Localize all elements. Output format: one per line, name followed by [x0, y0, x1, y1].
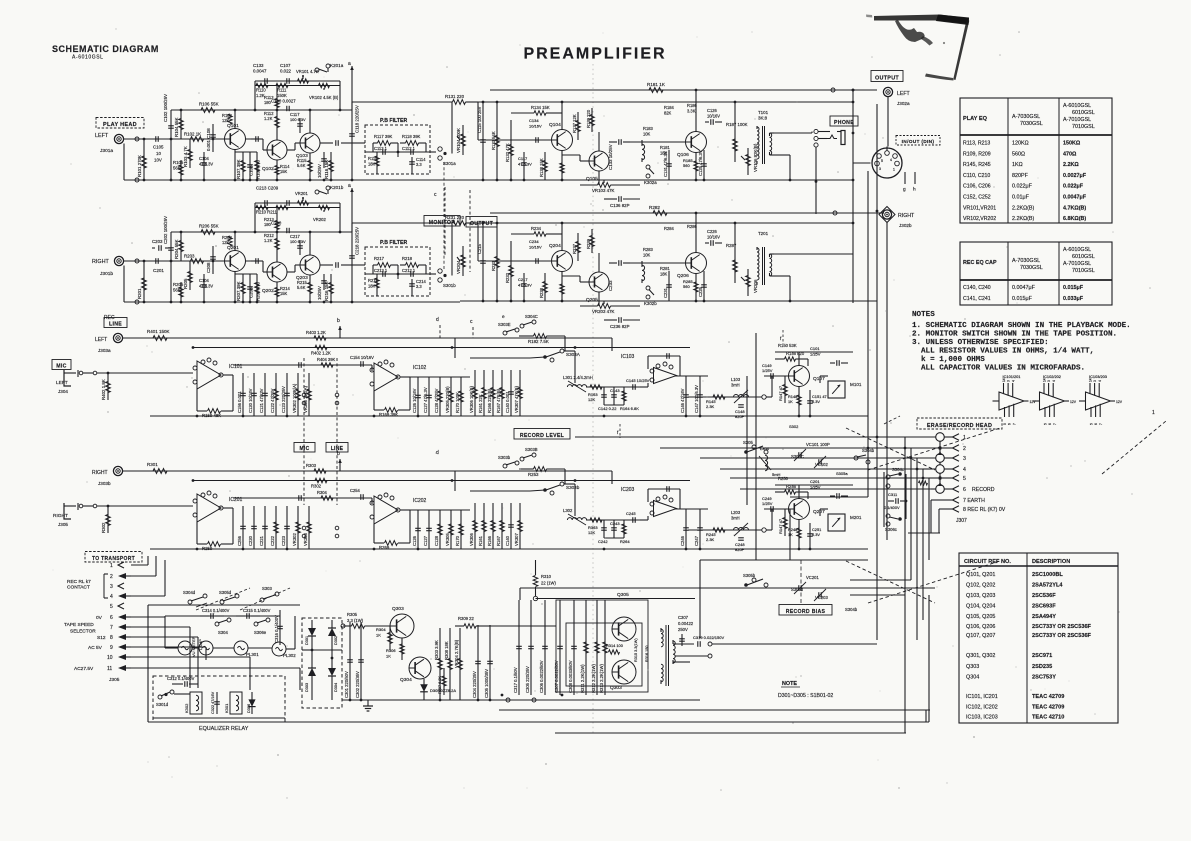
capacitor C218 — [349, 256, 355, 258]
contact rec out — [762, 509, 772, 532]
svg-text:D303: D303 — [305, 683, 309, 692]
svg-text:4: 4 — [890, 158, 892, 162]
diode D306 — [248, 692, 255, 714]
svg-text:R308 18K: R308 18K — [444, 641, 449, 660]
wire ic3 in2 — [647, 516, 649, 520]
svg-text:Q205: Q205 — [586, 297, 598, 303]
resistor R308 — [444, 628, 453, 700]
inductor L103 — [734, 390, 749, 403]
label Q203 — [296, 275, 308, 281]
wire encl left — [147, 605, 149, 722]
capacitor C143 — [610, 387, 620, 405]
resistor R314 — [606, 643, 624, 654]
wire q2 base drop — [262, 139, 264, 150]
wire dashed line link — [336, 358, 338, 505]
wire q2 base — [246, 138, 264, 140]
capacitor C212 — [402, 268, 416, 277]
svg-text:MONITOR: MONITOR — [429, 220, 456, 226]
svg-text:A-7030GSL: A-7030GSL — [1012, 114, 1040, 120]
label SELECTOR — [70, 629, 96, 635]
svg-text:PLAY HEAD: PLAY HEAD — [103, 122, 137, 128]
table ref row IC101, IC201 — [966, 694, 1064, 700]
svg-text:Q105: Q105 — [586, 176, 598, 182]
svg-text:VR206: VR206 — [753, 279, 758, 293]
component R170 col2 — [455, 510, 464, 549]
svg-text:6: 6 — [963, 487, 966, 493]
svg-text:L302: L302 — [563, 508, 573, 513]
svg-text:VR307: VR307 — [514, 533, 519, 546]
potentiometer VR203 — [580, 301, 640, 308]
svg-text:R311 2.2K(1W): R311 2.2K(1W) — [580, 664, 585, 693]
svg-text:56K: 56K — [173, 287, 181, 292]
svg-text:DESCRIPTION: DESCRIPTION — [1032, 559, 1070, 565]
svg-text:3: 3 — [1047, 380, 1051, 382]
label MIC — [52, 360, 71, 370]
capacitor C133 — [265, 78, 267, 84]
trimmer VC101 — [794, 442, 830, 461]
wire lamp bus left — [164, 616, 166, 648]
label S302a — [789, 424, 799, 429]
switch S306c head — [885, 514, 902, 532]
wire jack ground drop — [123, 266, 125, 303]
label EQUALIZER RELAY — [199, 726, 249, 732]
potentiometer VR101 — [298, 75, 309, 83]
label Q301 — [617, 592, 629, 598]
wire fb left drop — [254, 81, 256, 110]
wire filter out — [430, 151, 436, 153]
wire head stub h1 — [850, 579, 911, 581]
resistor R305 — [341, 624, 390, 629]
svg-text:0.022μF: 0.022μF — [1012, 184, 1033, 190]
node b2 arrow — [338, 459, 342, 471]
svg-text:C145 10/25V: C145 10/25V — [626, 378, 650, 383]
table PLAY EQ row VR101,VR201 — [963, 205, 1086, 211]
svg-text:RIGHT: RIGHT — [92, 470, 108, 476]
wire pin2 up — [155, 556, 157, 576]
svg-text:SCHEMATIC DIAGRAM: SCHEMATIC DIAGRAM — [52, 44, 159, 54]
svg-text:R303: R303 — [306, 463, 317, 468]
svg-text:C134: C134 — [529, 118, 539, 123]
svg-text:5mH: 5mH — [772, 472, 781, 477]
capacitor C305 pw — [525, 600, 534, 695]
svg-text:R404 39K: R404 39K — [317, 357, 335, 362]
label R101 150K — [147, 329, 170, 334]
resistor R146s — [775, 357, 808, 366]
svg-text:S305: S305 — [743, 440, 753, 445]
svg-text:K302a: K302a — [644, 180, 657, 185]
capacitor C151 — [807, 390, 827, 416]
component C140 c2 — [505, 503, 514, 549]
svg-text:2SC536F: 2SC536F — [1032, 593, 1056, 599]
capacitor C308 pw — [568, 600, 577, 695]
wire pb2 to out rail — [352, 222, 432, 224]
ground rail contact — [135, 300, 353, 304]
svg-text:0.0047: 0.0047 — [253, 68, 267, 73]
label Q206 — [677, 273, 689, 279]
label R181 1K — [647, 82, 666, 87]
note line — [912, 322, 1131, 330]
label R117 39K — [374, 134, 393, 139]
svg-text:0V: 0V — [96, 615, 103, 621]
svg-text:0.015μF: 0.015μF — [1012, 296, 1033, 302]
resistor R304 — [388, 626, 393, 650]
label MONITOR — [424, 216, 460, 227]
transport pin 6 — [96, 614, 131, 621]
svg-text:R182 7.5K: R182 7.5K — [528, 339, 549, 344]
label R304 1K — [376, 627, 386, 637]
lamp meter 1 — [178, 641, 192, 655]
label R150 — [778, 343, 797, 348]
component VR307 c1 — [514, 370, 523, 416]
transport bracket — [104, 574, 108, 598]
svg-text:4: 4 — [110, 594, 113, 600]
resistor R217 — [373, 263, 398, 268]
svg-text:VR307 47K(B): VR307 47K(B) — [514, 385, 519, 413]
capacitor C307 osc — [678, 615, 694, 646]
svg-text:J302a: J302a — [897, 101, 910, 106]
label C130 0.0027 — [271, 99, 296, 104]
label R201 150K — [147, 462, 158, 467]
wiper contacts mic — [302, 393, 306, 405]
table ref row IC102, IC202 — [966, 705, 1064, 711]
table ref row Q303 — [966, 664, 1052, 670]
wire lamp link — [192, 647, 199, 649]
label R159 48K — [202, 413, 221, 418]
cap C322 — [214, 692, 220, 714]
svg-text:820PF: 820PF — [1012, 173, 1029, 179]
svg-text:R401 150K: R401 150K — [147, 329, 170, 334]
table PLAY EQ frame — [960, 98, 1112, 223]
label C117 47 — [518, 156, 532, 166]
table PLAY EQ row VR102,VR202 — [963, 216, 1086, 222]
svg-text:OUTPUT: OUTPUT — [875, 76, 899, 82]
svg-text:5.6K: 5.6K — [297, 163, 306, 168]
capacitor C235 — [609, 260, 630, 266]
label LEFT — [95, 133, 109, 139]
diode D304 — [328, 668, 336, 676]
potentiometer VR106 — [741, 148, 750, 175]
wire bias bus 2 — [660, 447, 911, 449]
capacitor C112 — [402, 146, 416, 155]
svg-text:100 6.3V: 100 6.3V — [290, 117, 306, 122]
inductor L304 — [759, 446, 781, 477]
component C126 col2 — [412, 510, 421, 549]
svg-text:REC EQ CAP: REC EQ CAP — [963, 260, 997, 266]
wire out bot drop2 — [789, 276, 791, 301]
transport pin 5 — [110, 603, 124, 610]
wire q104 collector — [561, 223, 563, 251]
wire emitter — [234, 272, 236, 303]
label R246 — [786, 484, 797, 489]
svg-text:VC203: VC203 — [815, 595, 828, 600]
potentiometer VR102 — [319, 83, 330, 90]
wire t101 out bot — [774, 154, 790, 156]
wire head vert 1 — [904, 437, 906, 733]
svg-text:C126: C126 — [707, 108, 718, 113]
svg-text:R204 55K: R204 55K — [174, 239, 179, 259]
wire long vert A — [755, 333, 757, 560]
resistor R210 — [256, 205, 268, 209]
svg-text:M201: M201 — [850, 515, 862, 520]
svg-text:R304: R304 — [376, 627, 386, 632]
svg-text:J305: J305 — [58, 522, 68, 527]
wire line drop right — [611, 471, 613, 484]
capacitor C117 — [290, 112, 306, 133]
svg-text:ALL RESISTOR VALUES IN OHMS, 1: ALL RESISTOR VALUES IN OHMS, 1/4 WATT, — [921, 348, 1094, 356]
svg-text:R205: R205 — [183, 278, 188, 289]
svg-text:R207 39K: R207 39K — [236, 281, 241, 301]
svg-text:2SC971: 2SC971 — [1032, 653, 1052, 659]
label LINE sel — [326, 443, 348, 453]
svg-text:R302: R302 — [311, 484, 322, 489]
wire to q106 — [630, 262, 685, 264]
wire head wire 6 — [740, 488, 931, 490]
wire din tap — [867, 171, 869, 497]
table PLAY EQ header — [963, 103, 1095, 130]
label IC102 — [413, 365, 427, 371]
svg-text:7: 7 — [1099, 423, 1103, 425]
svg-text:6.8KΩ(B): 6.8KΩ(B) — [1063, 216, 1086, 222]
svg-text:R110: R110 — [256, 88, 266, 93]
jack play head left — [114, 134, 123, 143]
capacitor C233 — [265, 200, 267, 206]
label R186 3.3K — [687, 103, 698, 113]
svg-text:C226: C226 — [707, 229, 718, 234]
capacitor C213 — [374, 268, 388, 277]
label R111 150K — [277, 88, 287, 98]
svg-text:R309 22: R309 22 — [458, 616, 475, 621]
svg-text:0.1/400V: 0.1/400V — [884, 505, 900, 510]
head connector vertical — [939, 437, 941, 489]
svg-text:14: 14 — [1043, 378, 1047, 382]
svg-text:5: 5 — [1090, 423, 1094, 425]
svg-text:LEFT: LEFT — [95, 337, 107, 343]
table REC EQ CAP row C140, C240 — [963, 285, 1084, 291]
capacitor C247 — [694, 509, 703, 549]
svg-text:J304: J304 — [58, 389, 68, 394]
label VR102 4.5K(B) — [309, 95, 339, 100]
svg-text:R181 1K: R181 1K — [647, 82, 666, 87]
wire mid rail long — [478, 101, 853, 103]
wire s303 out — [564, 483, 575, 485]
resistor R110 — [256, 83, 268, 87]
label TAPE SPEED — [64, 622, 94, 628]
svg-text:47 6.3V: 47 6.3V — [518, 161, 532, 166]
svg-text:18K: 18K — [368, 161, 376, 166]
svg-text:R186: R186 — [687, 103, 698, 108]
resistor R238b — [539, 273, 547, 301]
resistor R203 — [188, 261, 193, 290]
table CIRCUIT REF NO header — [964, 559, 1070, 565]
switch contact S301a — [438, 147, 447, 160]
resistor R145r — [706, 395, 725, 409]
capacitor C148 — [735, 405, 745, 419]
jack output left — [883, 87, 892, 96]
svg-text:4: 4 — [963, 467, 966, 473]
svg-text:Q304: Q304 — [400, 677, 412, 683]
svg-text:C316 0.1/400V: C316 0.1/400V — [274, 615, 279, 643]
wire ic2 out — [410, 376, 470, 378]
label ERASE/RECORD HEAD — [917, 418, 1002, 429]
label K302b — [644, 301, 657, 306]
wire fb top branch — [255, 80, 340, 82]
wire rec ground rail — [150, 548, 868, 550]
transistor Q107r — [789, 366, 810, 387]
wire ic3 in2 — [647, 383, 649, 387]
svg-text:R106 55K: R106 55K — [199, 102, 219, 107]
wire sig2 — [478, 139, 551, 141]
label K301 — [224, 703, 229, 713]
label C108 0.001 — [206, 128, 211, 151]
resistor R104m — [317, 357, 335, 367]
svg-text:R284: R284 — [664, 226, 675, 231]
svg-text:TAPE SPEED: TAPE SPEED — [64, 622, 94, 628]
svg-text:C133: C133 — [253, 63, 264, 68]
svg-text:250V: 250V — [678, 627, 688, 632]
transport pin 9 — [88, 644, 131, 651]
svg-text:10K: 10K — [643, 252, 651, 257]
rail junction dots — [192, 346, 577, 349]
phone jack — [814, 129, 845, 214]
resistor R132 — [505, 120, 514, 180]
label R306 1K — [386, 648, 396, 658]
wire ic1 to ic2 — [233, 364, 372, 366]
wire fb right drop — [339, 203, 341, 232]
svg-text:0.00422: 0.00422 — [678, 621, 694, 626]
svg-text:1: 1 — [1152, 410, 1155, 416]
svg-text:C315 0.1/400V: C315 0.1/400V — [243, 608, 271, 613]
resistor R245r — [706, 528, 725, 542]
label R253 — [528, 472, 539, 477]
wire sig2 — [478, 260, 551, 262]
head connector pin 1 — [936, 433, 966, 442]
label R106 55K — [199, 102, 219, 107]
component VR303 col — [303, 373, 312, 416]
svg-text:R107 39K: R107 39K — [236, 159, 241, 179]
label C105 value — [153, 145, 164, 163]
wire pin10 — [131, 656, 250, 658]
svg-text:IC102, IC202: IC102, IC202 — [966, 705, 998, 711]
wire low bus — [499, 709, 930, 711]
label R187 100K — [726, 122, 748, 127]
capacitor C254 — [350, 488, 363, 500]
svg-text:LEFT: LEFT — [95, 133, 109, 139]
wire q3 base3 — [295, 264, 300, 266]
label VR201 — [295, 191, 308, 196]
label Q102 — [262, 166, 274, 172]
capacitor C104 — [201, 152, 207, 180]
svg-text:R239: R239 — [586, 238, 591, 249]
head connector pin 6 — [936, 485, 966, 494]
mic jack 2 — [64, 503, 97, 519]
resistor R303p — [434, 628, 443, 700]
node d2 — [436, 450, 439, 456]
svg-text:C311: C311 — [888, 492, 898, 497]
svg-text:120KΩ: 120KΩ — [1012, 141, 1029, 147]
capacitor C311 — [884, 492, 906, 510]
wire long vert B — [746, 376, 748, 505]
svg-text:RECORD LEVEL: RECORD LEVEL — [520, 433, 565, 439]
svg-text:IC102: IC102 — [413, 365, 427, 371]
label J304 — [58, 389, 68, 394]
switch S303A — [543, 349, 564, 362]
label P.B FILTER — [380, 118, 407, 124]
svg-text:A-7010GSL: A-7010GSL — [1063, 117, 1091, 123]
table REC EQ CAP row C141, C241 — [963, 296, 1084, 302]
svg-text:7010GSL: 7010GSL — [1072, 268, 1095, 274]
svg-text:C223: C223 — [281, 535, 286, 546]
wire q2 base in — [263, 271, 267, 273]
label LINE RIGHT — [92, 470, 108, 476]
wire q107 collector — [798, 352, 800, 366]
IC pin diagram IC101/201 — [993, 374, 1037, 425]
svg-text:R170 100K: R170 100K — [455, 392, 460, 413]
rail dots2 — [695, 211, 837, 215]
transport pin 8 — [97, 634, 131, 641]
svg-text:3: 3 — [963, 456, 966, 462]
svg-text:EQUALIZER RELAY: EQUALIZER RELAY — [199, 726, 249, 732]
label R403 1.2K — [306, 463, 317, 468]
svg-text:S305a: S305a — [836, 471, 848, 476]
resistor R248r — [788, 527, 801, 538]
label Q303 — [392, 606, 404, 612]
resistor R112 — [264, 111, 279, 127]
wire fb top branch — [255, 202, 340, 204]
svg-text:Q204: Q204 — [549, 243, 561, 249]
resistor R206 — [201, 230, 215, 235]
svg-text:C312 0.1/400V: C312 0.1/400V — [167, 676, 195, 681]
table PLAY EQ row R113, R213 — [963, 141, 1081, 147]
svg-text:R181: R181 — [660, 145, 671, 150]
table ref row Q107, Q207 — [966, 633, 1092, 639]
op-amp IC201 — [193, 491, 223, 522]
DIN connector — [872, 147, 902, 179]
label C209 22P — [0, 0, 1, 1]
label J302b — [899, 223, 912, 228]
component C122 col — [270, 373, 279, 416]
dashed link d0 — [884, 416, 900, 424]
wire jack left drop — [887, 97, 889, 147]
wire head stub 6 — [931, 488, 936, 490]
label REC RL CONTACT — [67, 579, 91, 590]
capacitor C217 — [290, 234, 306, 255]
svg-text:S303b: S303b — [566, 485, 580, 490]
svg-text:IC103/203: IC103/203 — [1089, 374, 1107, 379]
label R102 1.2K — [311, 351, 331, 356]
svg-text:S304b: S304b — [845, 607, 858, 612]
resistor R306 — [400, 638, 404, 660]
wire ic2 in drop — [371, 498, 373, 504]
svg-text:C128: C128 — [434, 535, 439, 546]
capacitor C115 — [477, 102, 486, 180]
svg-text:R237: R237 — [572, 243, 577, 254]
label TO TRANSPORT — [85, 552, 142, 563]
svg-text:VR201: VR201 — [295, 191, 308, 196]
label R116 15K — [324, 160, 329, 179]
label C107 0.022 — [280, 63, 292, 73]
wire ic3 out — [675, 375, 708, 377]
svg-text:S302: S302 — [789, 424, 799, 429]
wire q106 collector — [695, 90, 697, 132]
table REC EQ CAP frame — [960, 242, 1112, 305]
resistor R102 — [191, 137, 204, 142]
svg-text:S305d: S305d — [219, 590, 232, 595]
svg-text:6.3V: 6.3V — [812, 399, 820, 404]
resistor R253 — [519, 467, 565, 484]
wire relay bus — [153, 717, 285, 719]
wire mid rail long — [478, 222, 853, 224]
label Q202 — [262, 288, 274, 294]
